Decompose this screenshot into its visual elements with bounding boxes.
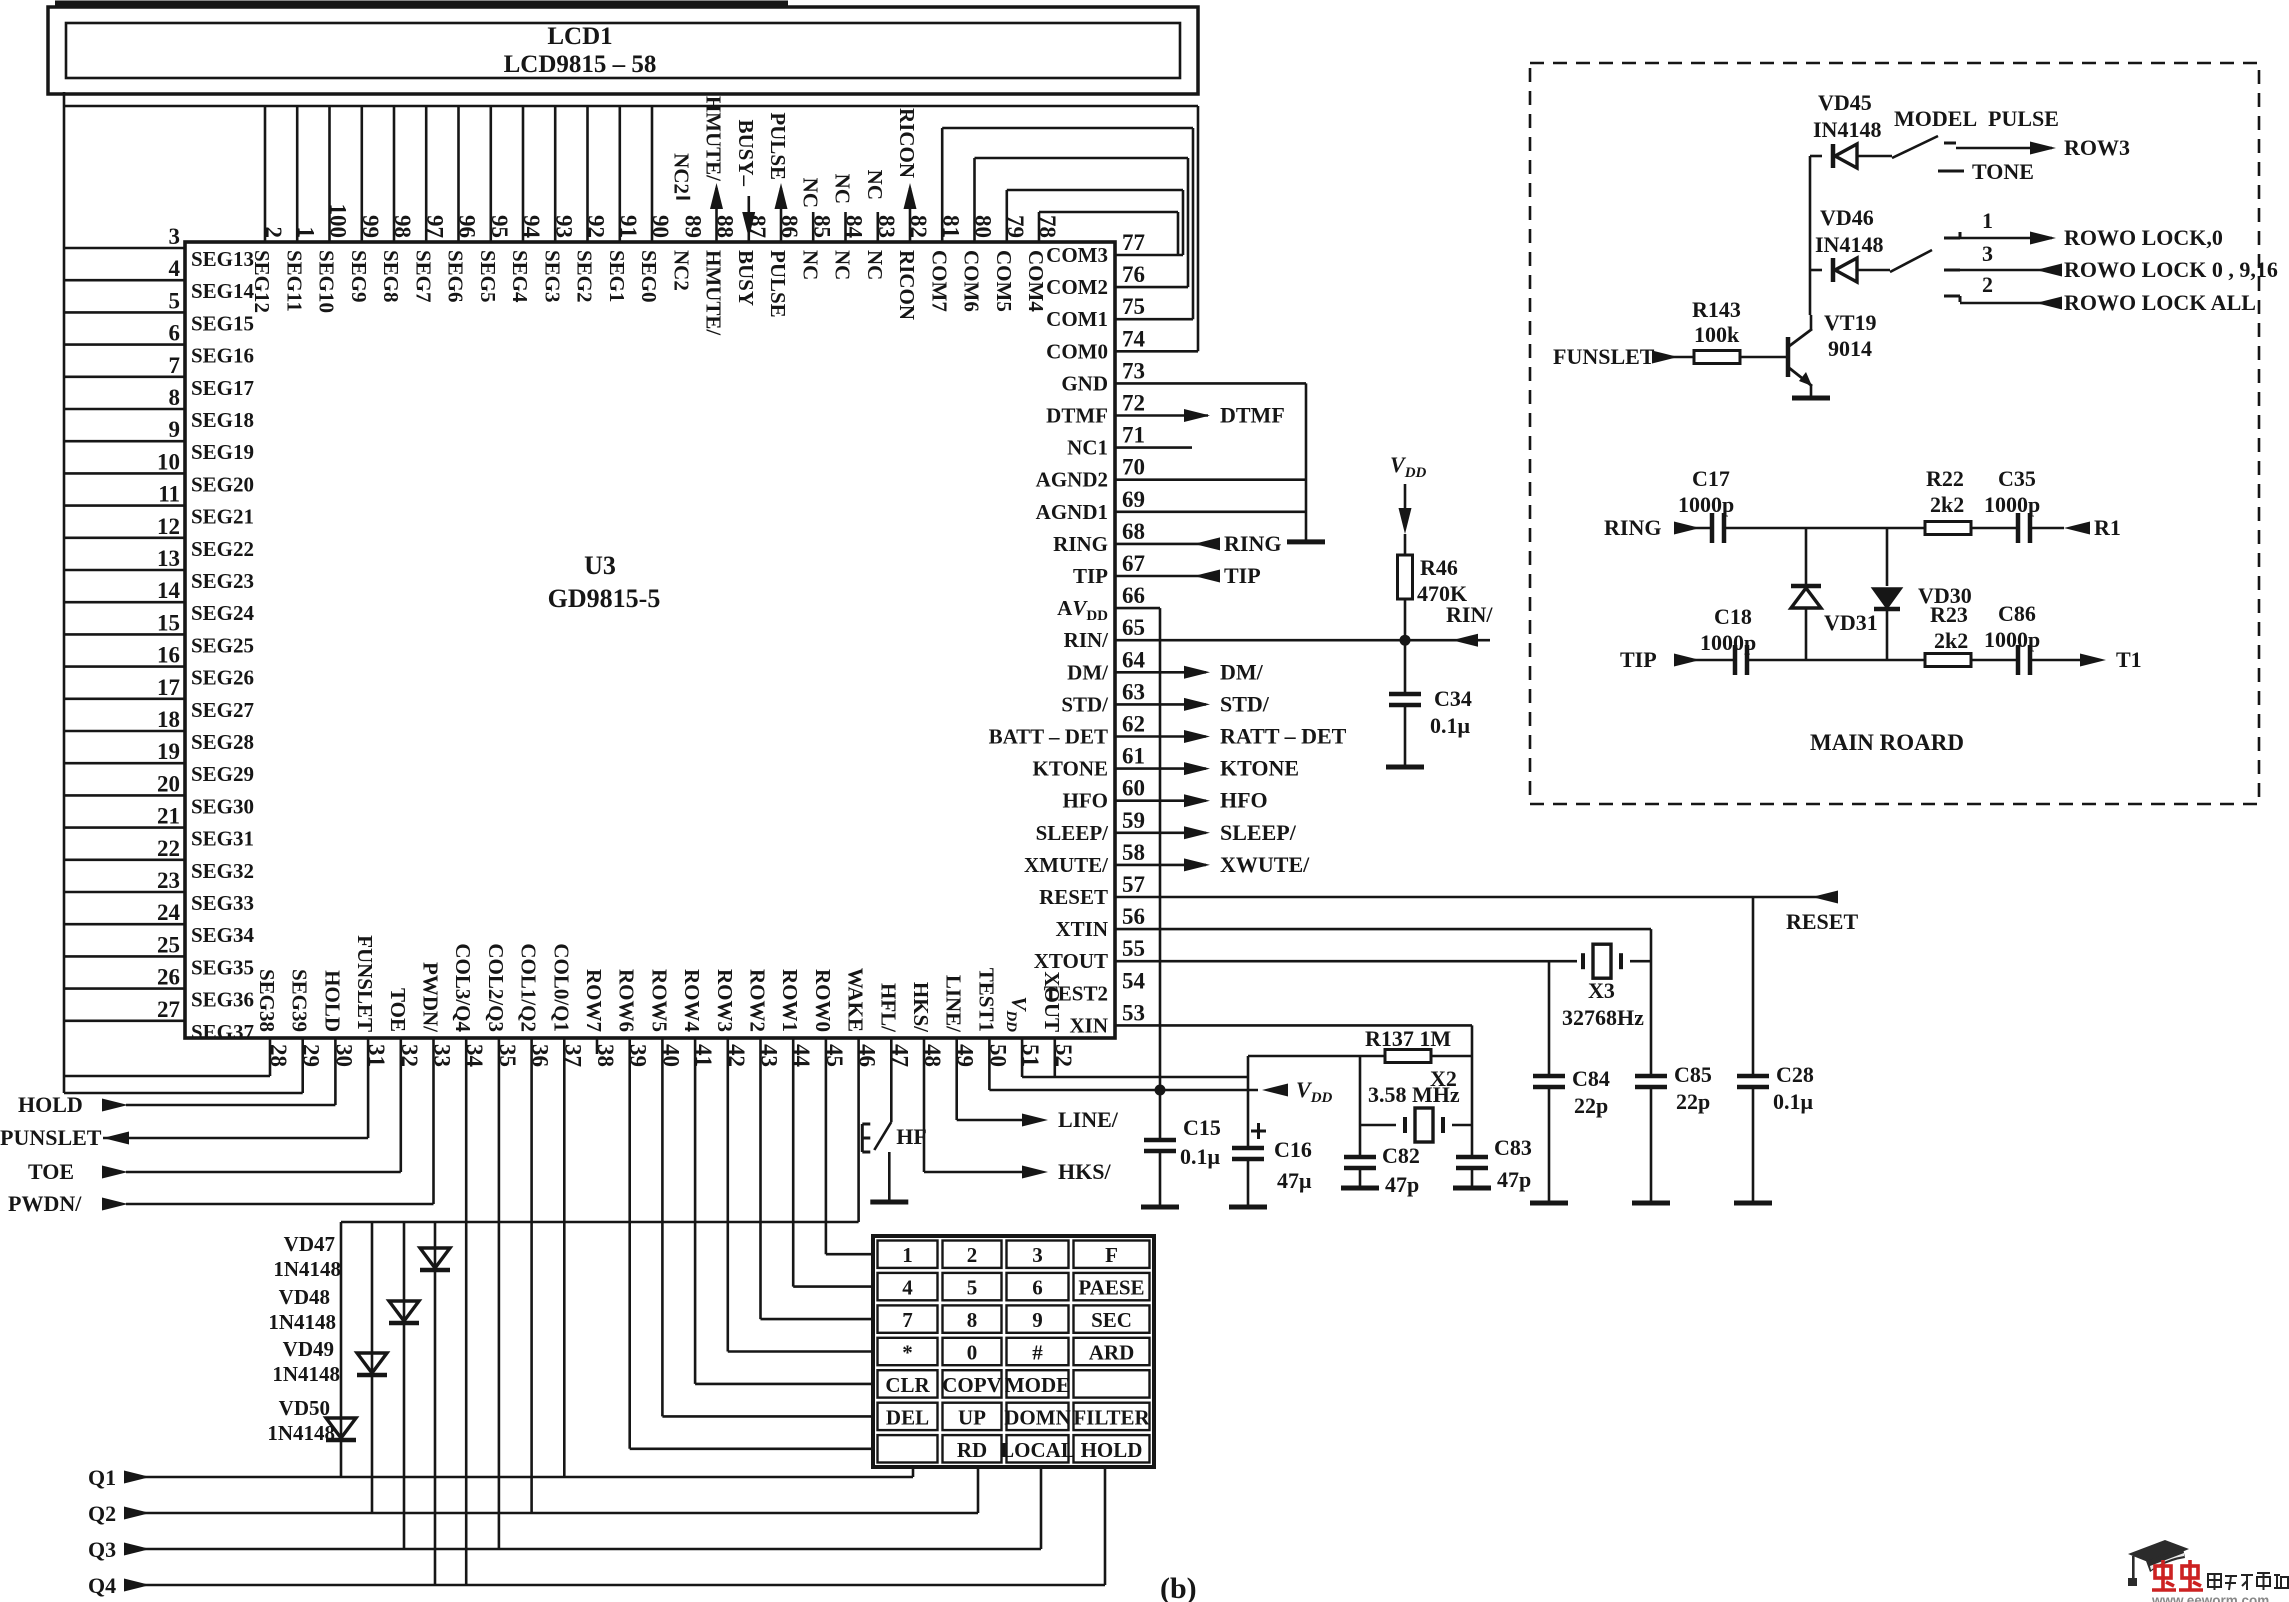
HF switch bracket bbox=[861, 1124, 864, 1152]
svg-text:0.1μ: 0.1μ bbox=[1180, 1144, 1221, 1169]
HKS/ pin48 wire bbox=[923, 1038, 926, 1172]
svg-text:SEG4: SEG4 bbox=[508, 250, 532, 303]
svg-text:2: 2 bbox=[1982, 272, 1993, 297]
svg-text:PWDN/: PWDN/ bbox=[8, 1191, 82, 1216]
COM bundle outer vertical bbox=[1197, 106, 1200, 351]
pin 51 VDD bbox=[1003, 996, 1043, 1067]
ground symbol C15 bbox=[1141, 1205, 1179, 1210]
Q3 arrow bbox=[124, 1543, 150, 1556]
svg-text:19: 19 bbox=[157, 739, 180, 764]
pin 92 SEG2 bbox=[573, 106, 609, 303]
GND pin73 wire bbox=[1115, 382, 1306, 385]
pin 38 ROW7 bbox=[582, 969, 618, 1067]
svg-text:ROW2: ROW2 bbox=[746, 969, 770, 1032]
svg-text:14: 14 bbox=[157, 578, 181, 603]
svg-text:AGND2: AGND2 bbox=[1036, 468, 1108, 492]
svg-text:68: 68 bbox=[1122, 519, 1145, 544]
pin 29 SEG39 bbox=[288, 969, 324, 1067]
svg-text:C86: C86 bbox=[1998, 601, 2036, 626]
pin 20 SEG30 wire bbox=[64, 771, 254, 818]
svg-text:63: 63 bbox=[1122, 679, 1145, 704]
keypad row 5 wire to ROW pin bbox=[695, 1038, 875, 1384]
svg-text:SEG11: SEG11 bbox=[282, 250, 306, 312]
svg-text:53: 53 bbox=[1122, 1000, 1145, 1025]
svg-text:62: 62 bbox=[1122, 712, 1145, 737]
svg-text:SEG24: SEG24 bbox=[191, 601, 255, 625]
IC U3 GD9815-5 body bbox=[185, 242, 1115, 1038]
svg-text:89: 89 bbox=[680, 215, 705, 238]
ROWO LOCK,0 wire bbox=[1960, 237, 2052, 240]
RING wire C17 to R22 bbox=[1723, 527, 1925, 530]
svg-text:0.1μ: 0.1μ bbox=[1773, 1089, 1814, 1114]
COM5 wire pin79 to bundle bbox=[1005, 190, 1008, 242]
svg-text:FUNSLET: FUNSLET bbox=[353, 935, 377, 1032]
keypad row 7 wire to ROW pin bbox=[630, 1038, 875, 1449]
svg-text:R137 1M: R137 1M bbox=[1365, 1026, 1451, 1051]
pin 40 ROW5 bbox=[647, 969, 683, 1067]
VDD arrow bbox=[1262, 1084, 1288, 1097]
svg-text:0: 0 bbox=[967, 1341, 978, 1365]
svg-text:3: 3 bbox=[1982, 241, 1993, 266]
pin 27 SEG37 wire bbox=[64, 997, 254, 1044]
svg-text:DOMN: DOMN bbox=[1004, 1405, 1071, 1429]
svg-text:ROW6: ROW6 bbox=[615, 969, 639, 1032]
diode VD49 bbox=[357, 1353, 387, 1373]
svg-text:SEG12: SEG12 bbox=[250, 250, 274, 313]
keypad matrix outline bbox=[873, 1236, 1154, 1467]
svg-text:HOLD: HOLD bbox=[320, 970, 344, 1032]
svg-text:TIP: TIP bbox=[1073, 564, 1108, 588]
svg-text:STD/: STD/ bbox=[1220, 691, 1270, 716]
TIP arrow bbox=[1674, 654, 1700, 667]
COM4 wire pin78 to bundle bbox=[1038, 212, 1041, 242]
AGND2 pin70 wire bbox=[1115, 478, 1306, 481]
svg-text:1N4148: 1N4148 bbox=[268, 1310, 336, 1334]
ROWO LOCK 0,9,16 wire bbox=[1960, 269, 2060, 272]
capacitor C16 plus sign bbox=[1251, 1130, 1266, 1133]
svg-text:DM/: DM/ bbox=[1220, 659, 1264, 684]
pin 12 SEG22 wire bbox=[64, 514, 254, 561]
ground symbol C82 bbox=[1341, 1186, 1379, 1191]
pin 26 SEG36 wire bbox=[64, 965, 254, 1012]
ROWO LOCK ALL arrow bbox=[2036, 297, 2062, 310]
pin 94 SEG4 bbox=[508, 106, 544, 303]
ROWO LOCK contact 2 bbox=[1944, 295, 1960, 298]
svg-text:SEG29: SEG29 bbox=[191, 762, 254, 786]
C84 junction on XTOUT wire bbox=[1533, 1074, 1565, 1079]
svg-text:65: 65 bbox=[1122, 615, 1145, 640]
pin 81 COM7 bbox=[927, 215, 963, 312]
svg-text:R46: R46 bbox=[1420, 555, 1458, 580]
diode VD45 bbox=[1810, 155, 1822, 158]
pin 96 SEG6 bbox=[444, 106, 480, 303]
svg-text:10: 10 bbox=[157, 449, 180, 474]
COL1/Q2 pin36 wire bbox=[530, 1038, 533, 1513]
svg-text:SEG15: SEG15 bbox=[191, 311, 254, 335]
svg-text:U3: U3 bbox=[584, 551, 616, 580]
pin 36 COL1/Q2 bbox=[517, 943, 553, 1067]
svg-text:SEG1: SEG1 bbox=[605, 250, 629, 303]
svg-text:RD: RD bbox=[957, 1438, 987, 1462]
svg-text:COM7: COM7 bbox=[927, 250, 951, 312]
svg-text:9: 9 bbox=[1032, 1308, 1043, 1332]
LINE/ arrow bbox=[1022, 1114, 1048, 1127]
wire R143 to VT19 base bbox=[1740, 356, 1788, 359]
keypad column 4 wire to Q4 bbox=[1104, 1465, 1107, 1585]
svg-text:VD31: VD31 bbox=[1824, 610, 1878, 635]
svg-text:R22: R22 bbox=[1926, 466, 1964, 491]
svg-text:HFO: HFO bbox=[1063, 789, 1109, 813]
STD/ output wire with arrow bbox=[1115, 703, 1206, 706]
XOUT wire corner to R137 rail bbox=[1247, 1056, 1250, 1077]
svg-text:77: 77 bbox=[1122, 230, 1145, 255]
pin 37 COL0/Q1 bbox=[549, 943, 585, 1067]
svg-text:PWDN/: PWDN/ bbox=[419, 962, 443, 1033]
diode VD50 bbox=[326, 1418, 356, 1438]
pin 91 SEG1 bbox=[605, 106, 641, 303]
svg-text:Q3: Q3 bbox=[88, 1537, 116, 1562]
ground symbol C85 bbox=[1632, 1201, 1670, 1206]
svg-text:DEL: DEL bbox=[886, 1405, 929, 1429]
svg-text:47μ: 47μ bbox=[1277, 1168, 1312, 1193]
svg-text:TONE: TONE bbox=[1972, 159, 2034, 184]
svg-text:9014: 9014 bbox=[1828, 336, 1872, 361]
svg-text:22: 22 bbox=[157, 836, 180, 861]
svg-text:5: 5 bbox=[169, 288, 181, 313]
X2 leads bbox=[1360, 1124, 1396, 1127]
resistor R23 bbox=[1925, 654, 1971, 667]
VDD node junction bbox=[1155, 1085, 1166, 1096]
diode VD48 bbox=[389, 1301, 419, 1321]
svg-text:SEG23: SEG23 bbox=[191, 569, 254, 593]
C16 wire to ground bbox=[1247, 1157, 1250, 1205]
svg-text:XMUTE/: XMUTE/ bbox=[1024, 853, 1109, 877]
VD31 branch vertical bbox=[1805, 528, 1808, 586]
C84 wire to ground bbox=[1548, 1085, 1551, 1201]
svg-text:26: 26 bbox=[157, 965, 180, 990]
svg-text:DM/: DM/ bbox=[1067, 660, 1109, 684]
svg-text:SEG36: SEG36 bbox=[191, 988, 254, 1012]
pin 48 HKS/ bbox=[909, 982, 945, 1067]
svg-text:COL1/Q2: COL1/Q2 bbox=[517, 943, 541, 1032]
svg-text:61: 61 bbox=[1122, 744, 1145, 769]
svg-text:12: 12 bbox=[157, 514, 180, 539]
svg-text:1000p: 1000p bbox=[1700, 630, 1756, 655]
svg-text:NC: NC bbox=[863, 250, 887, 280]
GND group vertical bbox=[1305, 383, 1308, 542]
ground symbol HF bbox=[870, 1200, 908, 1205]
PWDN/ arrow bbox=[102, 1198, 128, 1211]
pin 95 SEG5 bbox=[476, 106, 512, 303]
svg-text:COL3/Q4: COL3/Q4 bbox=[451, 943, 475, 1032]
svg-text:SEG17: SEG17 bbox=[191, 376, 254, 400]
svg-text:RESET: RESET bbox=[1786, 909, 1858, 934]
pin 6 SEG16 wire bbox=[64, 321, 254, 368]
pin71 stub wire bbox=[1115, 446, 1192, 449]
svg-text:R143: R143 bbox=[1692, 297, 1741, 322]
HFL/ pin47 wire bbox=[890, 1038, 893, 1122]
svg-text:HMUTE/: HMUTE/ bbox=[702, 96, 726, 182]
RING pin68 wire with arrow bbox=[1115, 543, 1218, 546]
ground symbol C83 bbox=[1453, 1186, 1491, 1191]
svg-text:13: 13 bbox=[157, 546, 180, 571]
svg-text:LCD9815 – 58: LCD9815 – 58 bbox=[504, 51, 657, 78]
pin 5 SEG15 wire bbox=[64, 288, 254, 335]
pin 39 ROW6 bbox=[615, 969, 651, 1067]
svg-text:21: 21 bbox=[157, 804, 180, 829]
svg-text:SEG31: SEG31 bbox=[191, 827, 254, 851]
svg-text:56: 56 bbox=[1122, 904, 1145, 929]
LINE/ pin49 wire bbox=[955, 1038, 958, 1120]
TEST1 pin50 wire bbox=[988, 1038, 991, 1090]
keypad row 1 wire to ROW pin bbox=[826, 1038, 875, 1254]
svg-text:15: 15 bbox=[157, 610, 180, 635]
svg-text:SEG6: SEG6 bbox=[444, 250, 468, 303]
ground symbol C84 bbox=[1530, 1201, 1568, 1206]
svg-text:SEG30: SEG30 bbox=[191, 794, 254, 818]
pin 49 LINE/ bbox=[942, 975, 978, 1067]
svg-text:6: 6 bbox=[169, 321, 181, 346]
XTIN pin56 long wire bbox=[1115, 928, 1651, 931]
svg-text:XTOUT: XTOUT bbox=[1034, 949, 1108, 973]
svg-text:59: 59 bbox=[1122, 808, 1145, 833]
pin 10 SEG20 wire bbox=[64, 449, 254, 496]
svg-text:ROWO LOCK ALL: ROWO LOCK ALL bbox=[2064, 290, 2256, 315]
svg-text:TEST1: TEST1 bbox=[974, 968, 998, 1032]
svg-text:PAESE: PAESE bbox=[1078, 1276, 1144, 1300]
pin 93 SEG3 bbox=[540, 106, 576, 303]
pin 31 FUNSLET bbox=[353, 935, 389, 1067]
pin 85 NC bbox=[798, 212, 834, 280]
pin 80 COM6 bbox=[960, 215, 996, 312]
capacitor C17 bbox=[1710, 513, 1715, 543]
svg-text:COM6: COM6 bbox=[960, 250, 984, 312]
wire C35 to R1 bbox=[2029, 527, 2064, 530]
crystal X3 bbox=[1593, 944, 1611, 978]
R1 arrow bbox=[2064, 522, 2090, 535]
svg-text:4: 4 bbox=[169, 256, 181, 281]
pin 21 SEG31 wire bbox=[64, 804, 254, 851]
svg-text:66: 66 bbox=[1122, 583, 1145, 608]
XOUT pin52 wire bbox=[1054, 1038, 1057, 1077]
resistor R22 bbox=[1925, 522, 1971, 535]
Q3 wire bbox=[126, 1548, 1041, 1551]
PUNSLET arrow bbox=[103, 1132, 129, 1145]
resistor R137 bbox=[1385, 1050, 1431, 1063]
svg-text:COM0: COM0 bbox=[1046, 339, 1108, 363]
DM/ output wire with arrow bbox=[1115, 671, 1206, 674]
svg-text:60: 60 bbox=[1122, 776, 1145, 801]
svg-text:BATT – DET: BATT – DET bbox=[989, 725, 1108, 749]
svg-text:VD49: VD49 bbox=[283, 1337, 334, 1361]
svg-text:PUNSLET: PUNSLET bbox=[0, 1125, 102, 1150]
svg-text:LINE/: LINE/ bbox=[1058, 1107, 1119, 1132]
PWDN/ pin33 wire bbox=[432, 1038, 435, 1204]
svg-text:RATT – DET: RATT – DET bbox=[1220, 724, 1347, 749]
LCD segment bus top rail bbox=[64, 105, 1198, 108]
svg-text:COM1: COM1 bbox=[1046, 307, 1108, 331]
svg-text:T1: T1 bbox=[2116, 647, 2142, 672]
svg-text:ROWO LOCK,0: ROWO LOCK,0 bbox=[2064, 225, 2223, 250]
pin 78 COM4 bbox=[1024, 215, 1060, 312]
svg-text:SEG2: SEG2 bbox=[573, 250, 597, 303]
svg-text:HOLD: HOLD bbox=[18, 1092, 83, 1117]
svg-text:ROW3: ROW3 bbox=[2064, 135, 2130, 160]
watermark chong character 1 bbox=[2152, 1560, 2176, 1590]
pin 86 PULSE bbox=[766, 183, 802, 318]
svg-text:SEG39: SEG39 bbox=[288, 969, 312, 1032]
svg-text:SEG33: SEG33 bbox=[191, 891, 254, 915]
pin 24 SEG34 wire bbox=[64, 900, 255, 947]
svg-text:ROW3: ROW3 bbox=[713, 969, 737, 1032]
XIN pin53 wire bbox=[1115, 1024, 1472, 1027]
svg-text:XOUT: XOUT bbox=[1040, 971, 1064, 1032]
pin 14 SEG24 wire bbox=[64, 578, 255, 625]
svg-text:NC1: NC1 bbox=[1067, 436, 1108, 460]
TONE contact bbox=[1938, 170, 1964, 173]
svg-text:17: 17 bbox=[157, 675, 180, 700]
svg-text:SEG26: SEG26 bbox=[191, 666, 254, 690]
svg-text:PULSE: PULSE bbox=[766, 250, 790, 318]
svg-text:ARD: ARD bbox=[1089, 1341, 1135, 1365]
C85 wire to ground bbox=[1650, 1085, 1653, 1201]
svg-text:FUNSLET: FUNSLET bbox=[1553, 344, 1655, 369]
pin 79 COM5 bbox=[992, 215, 1028, 312]
Q4 arrow bbox=[124, 1579, 150, 1592]
AGND1 pin69 wire bbox=[1115, 510, 1306, 513]
LCD segment bus left vertical bbox=[63, 92, 66, 1093]
ROWO LOCK 0,9,16 arrow bbox=[2036, 264, 2062, 277]
HKS/ arrow bbox=[1022, 1166, 1048, 1179]
svg-text:RING: RING bbox=[1224, 531, 1281, 556]
svg-text:VT19: VT19 bbox=[1824, 310, 1877, 335]
pin 9 SEG19 wire bbox=[64, 417, 254, 464]
svg-text:IN4148: IN4148 bbox=[1815, 232, 1883, 257]
svg-text:TOE: TOE bbox=[28, 1159, 74, 1184]
pin 35 COL2/Q3 bbox=[484, 943, 520, 1067]
svg-text:SEG32: SEG32 bbox=[191, 859, 254, 883]
capacitor C16 bbox=[1247, 1077, 1250, 1148]
FUNSLET arrow bbox=[1652, 351, 1678, 364]
pin 13 SEG23 wire bbox=[64, 546, 254, 593]
svg-text:SEG21: SEG21 bbox=[191, 505, 254, 529]
svg-text:SEG28: SEG28 bbox=[191, 730, 254, 754]
svg-text:75: 75 bbox=[1122, 294, 1145, 319]
ground symbol VT19 bbox=[1792, 396, 1830, 401]
LCD1 display module outline bbox=[48, 7, 1198, 94]
svg-text:VD48: VD48 bbox=[279, 1285, 330, 1309]
svg-text:SEG37: SEG37 bbox=[191, 1020, 254, 1044]
svg-text:470K: 470K bbox=[1417, 581, 1467, 606]
svg-text:3.58 MHz: 3.58 MHz bbox=[1368, 1082, 1460, 1107]
svg-text:F: F bbox=[1105, 1243, 1118, 1267]
svg-text:SEG19: SEG19 bbox=[191, 440, 254, 464]
keypad row 4 wire to ROW pin bbox=[728, 1038, 875, 1352]
svg-text:GD9815-5: GD9815-5 bbox=[548, 584, 661, 613]
svg-text:SLEEP/: SLEEP/ bbox=[1036, 821, 1110, 845]
svg-text:NC: NC bbox=[798, 250, 822, 280]
capacitor C82 bbox=[1344, 1155, 1376, 1160]
svg-text:HF: HF bbox=[896, 1124, 927, 1149]
resistor R143 bbox=[1694, 351, 1740, 364]
diode VD49 column bbox=[371, 1222, 374, 1513]
svg-text:DTMF: DTMF bbox=[1046, 404, 1108, 428]
pin 45 ROW0 bbox=[811, 969, 847, 1067]
diode VD47 bbox=[420, 1248, 450, 1268]
svg-text:R23: R23 bbox=[1930, 602, 1968, 627]
Q2 wire bbox=[126, 1512, 978, 1515]
svg-text:C17: C17 bbox=[1692, 466, 1730, 491]
C28 wire to ground bbox=[1752, 1085, 1755, 1201]
svg-text:Q2: Q2 bbox=[88, 1501, 116, 1526]
svg-text:PULSE: PULSE bbox=[766, 112, 790, 180]
keypad column 3 wire to Q3 bbox=[1040, 1465, 1043, 1549]
svg-text:NC: NC bbox=[798, 178, 822, 208]
svg-text:SEG38: SEG38 bbox=[255, 969, 279, 1032]
svg-text:1N4148: 1N4148 bbox=[272, 1362, 340, 1386]
keypad row 6 wire to ROW pin bbox=[662, 1038, 875, 1416]
diode VD30 bbox=[1874, 589, 1900, 607]
svg-text:74: 74 bbox=[1122, 326, 1146, 351]
pin 46 WAKE bbox=[844, 968, 880, 1067]
svg-text:AGND1: AGND1 bbox=[1036, 500, 1108, 524]
svg-text:C85: C85 bbox=[1674, 1062, 1712, 1087]
svg-text:COM2: COM2 bbox=[1046, 275, 1108, 299]
svg-text:SEG10: SEG10 bbox=[315, 250, 339, 313]
pin 30 HOLD bbox=[320, 970, 356, 1067]
pin 83 NC bbox=[863, 212, 899, 280]
svg-text:C28: C28 bbox=[1776, 1062, 1814, 1087]
svg-text:3: 3 bbox=[169, 224, 181, 249]
pin 99 SEG9 bbox=[347, 106, 383, 303]
DTMF pin72 wire with arrow bbox=[1115, 414, 1208, 417]
keypad column 1 wire to Q1 bbox=[912, 1465, 915, 1477]
wire C34 to ground bbox=[1404, 703, 1407, 765]
pin 32 TOE bbox=[386, 988, 422, 1067]
svg-text:VD46: VD46 bbox=[1820, 205, 1874, 230]
resistor R137 wire bbox=[1360, 1055, 1472, 1058]
pin 7 SEG17 wire bbox=[64, 353, 254, 400]
C83 wire to ground bbox=[1471, 1166, 1474, 1186]
svg-text:AVDD: AVDD bbox=[1057, 596, 1108, 624]
SEG39 pin29 wire to bus bbox=[301, 1038, 304, 1093]
svg-text:UP: UP bbox=[958, 1405, 986, 1429]
watermark chong character 2 bbox=[2179, 1560, 2203, 1590]
svg-text:NC2: NC2 bbox=[669, 153, 693, 194]
Q2 arrow bbox=[124, 1507, 150, 1520]
svg-text:WAKE: WAKE bbox=[844, 968, 868, 1032]
svg-text:C16: C16 bbox=[1274, 1137, 1312, 1162]
pin 43 ROW2 bbox=[746, 969, 782, 1067]
svg-text:SEG35: SEG35 bbox=[191, 955, 254, 979]
capacitor C28 branch from RESET wire bbox=[1752, 897, 1755, 1076]
pin 84 NC bbox=[831, 212, 867, 280]
pin 47 HFL/ bbox=[876, 983, 912, 1067]
HFO output wire with arrow bbox=[1115, 799, 1206, 802]
svg-text:X3: X3 bbox=[1588, 978, 1615, 1003]
svg-text:5: 5 bbox=[967, 1276, 978, 1300]
svg-text:SEG18: SEG18 bbox=[191, 408, 254, 432]
MODEL PULSE switch bbox=[1892, 136, 1938, 158]
capacitor C84 branch bbox=[1548, 961, 1551, 1076]
ground symbol C28 bbox=[1734, 1201, 1772, 1206]
COM1 pin75 wire bbox=[1115, 318, 1193, 321]
ROWO LOCK contact 1 bbox=[1944, 237, 1960, 240]
wire R46 to RIN junction bbox=[1404, 599, 1407, 640]
svg-text:KTONE: KTONE bbox=[1033, 757, 1108, 781]
svg-text:VDD: VDD bbox=[1296, 1077, 1333, 1106]
svg-text:ROW5: ROW5 bbox=[647, 969, 671, 1032]
